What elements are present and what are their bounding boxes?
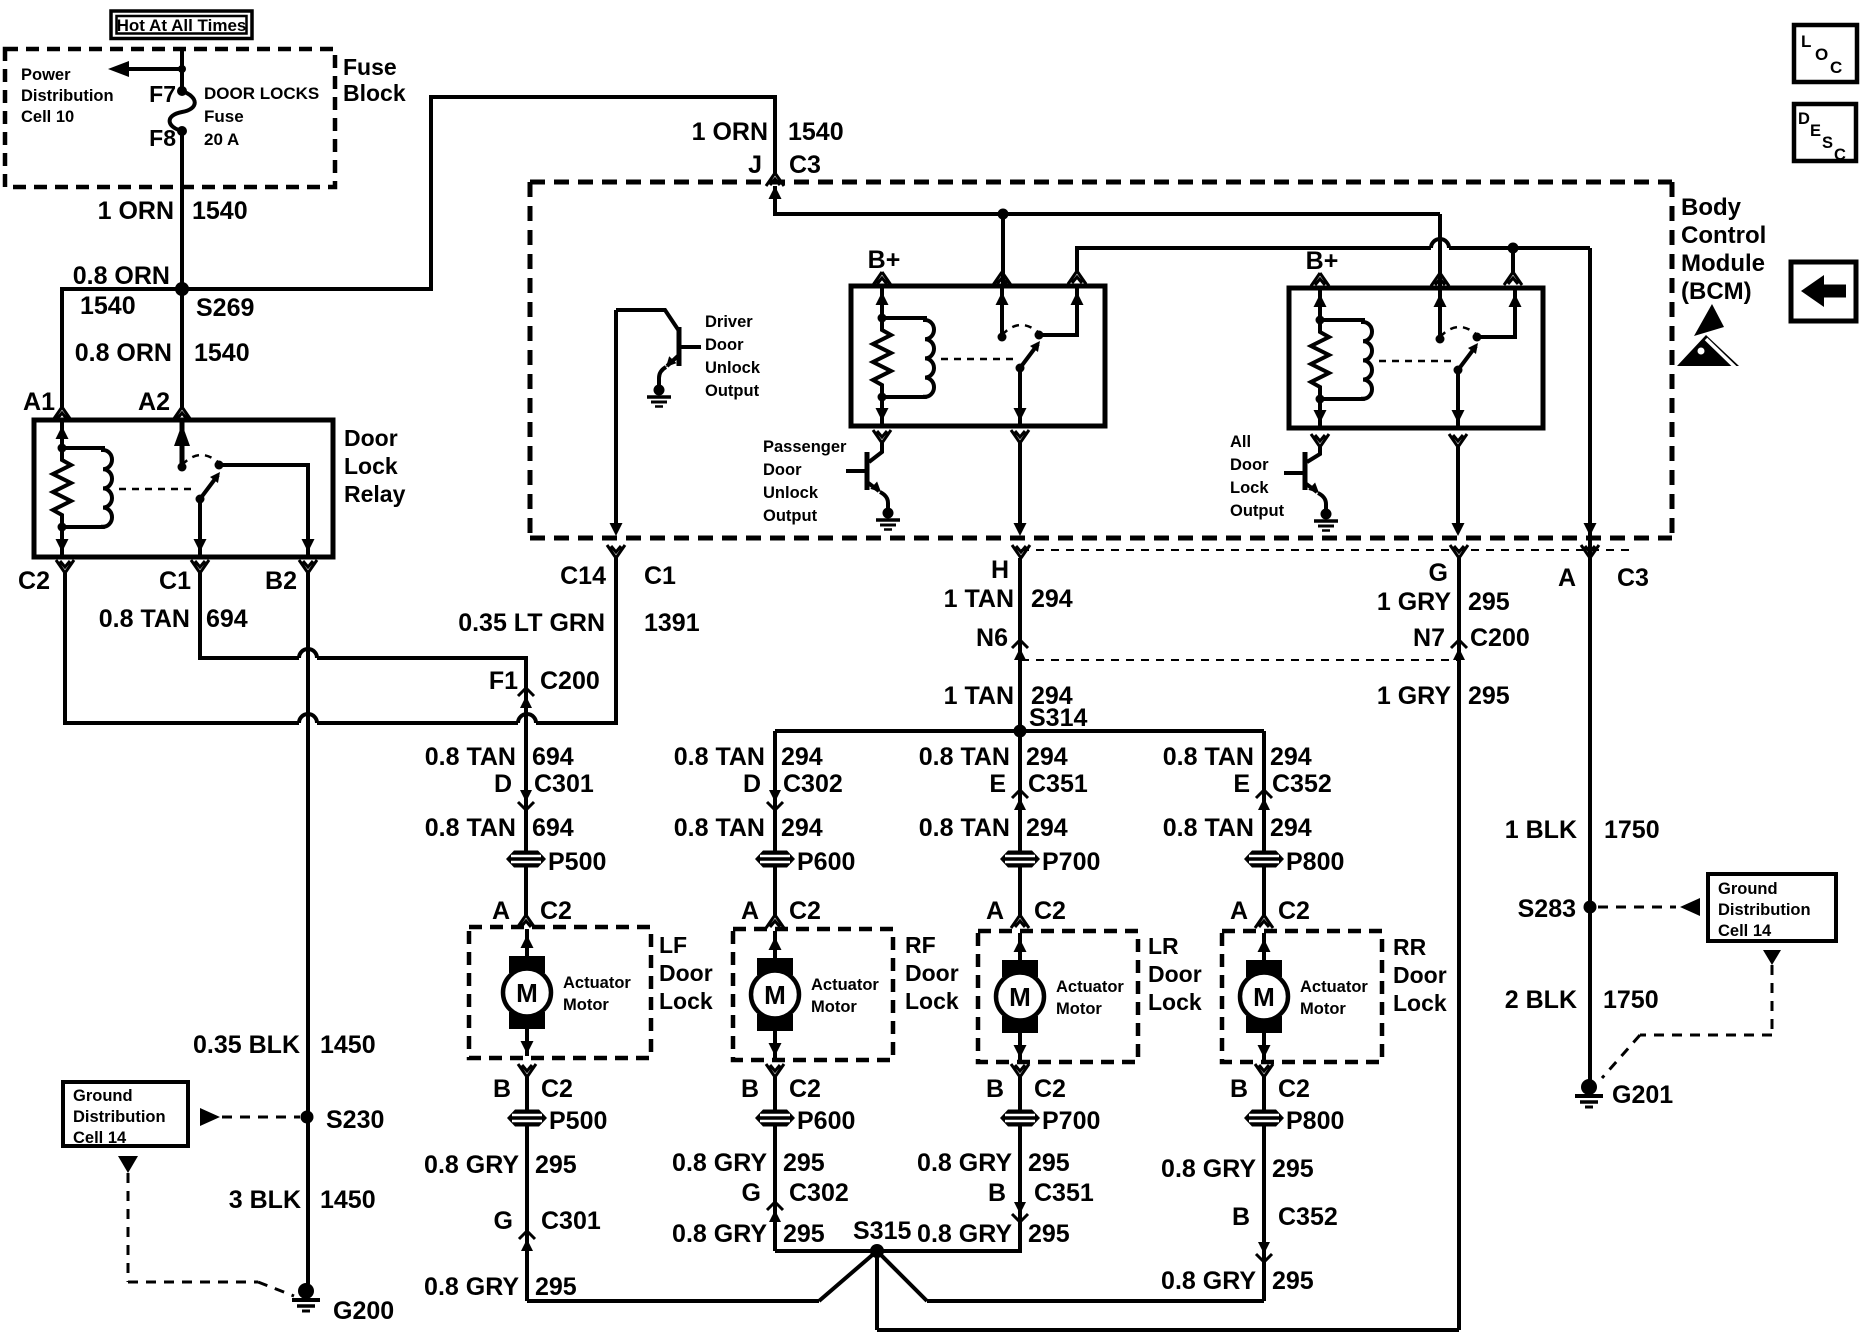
svg-text:C301: C301 <box>534 770 594 798</box>
connector C200 F1 <box>518 688 534 708</box>
connector C200 pass-through dashed lines <box>1021 549 1630 551</box>
pin G <box>1429 545 1468 587</box>
svg-text:1540: 1540 <box>80 292 136 320</box>
RR chain <box>1163 743 1345 928</box>
svg-text:295: 295 <box>535 1151 577 1179</box>
splice P700 <box>1000 1110 1040 1127</box>
svg-text:S269: S269 <box>196 294 254 322</box>
svg-text:G201: G201 <box>1612 1081 1673 1109</box>
svg-text:All: All <box>1230 433 1251 451</box>
svg-text:0.8 TAN: 0.8 TAN <box>425 743 516 771</box>
wire BCM battery feed <box>775 186 1440 214</box>
svg-text:B: B <box>986 1075 1004 1103</box>
pin B C2 <box>1255 1064 1273 1077</box>
node S315 and ground buses <box>527 1217 1459 1330</box>
svg-text:Driver: Driver <box>705 313 753 331</box>
fuse F7/F8 DOOR LOCKS 20A <box>149 81 319 151</box>
LF lower chain <box>424 1064 607 1301</box>
svg-text:1450: 1450 <box>320 1031 376 1059</box>
svg-text:B2: B2 <box>265 567 297 595</box>
svg-text:S314: S314 <box>1029 704 1087 732</box>
svg-text:1540: 1540 <box>788 118 844 146</box>
svg-text:C351: C351 <box>1028 770 1088 798</box>
svg-text:Body: Body <box>1681 194 1742 221</box>
Door Lock Relay label <box>344 425 406 507</box>
node S269 <box>73 262 255 322</box>
svg-text:P500: P500 <box>549 1107 607 1135</box>
svg-text:294: 294 <box>1270 814 1312 842</box>
Ground Distribution Cell 14 box (left) <box>63 1082 300 1296</box>
svg-text:C1: C1 <box>159 567 191 595</box>
svg-text:0.8 TAN: 0.8 TAN <box>674 743 765 771</box>
svg-text:Distribution: Distribution <box>1718 901 1811 919</box>
connector C301 pin D <box>518 790 534 810</box>
wire relay NC bus to ground line <box>1077 248 1431 271</box>
svg-text:B+: B+ <box>1306 247 1339 275</box>
svg-text:0.8 TAN: 0.8 TAN <box>919 814 1010 842</box>
svg-text:Output: Output <box>705 382 760 400</box>
svg-text:A: A <box>1558 564 1576 592</box>
svg-text:L: L <box>1801 32 1811 51</box>
svg-text:N7: N7 <box>1413 624 1445 652</box>
svg-text:A: A <box>986 897 1004 925</box>
svg-text:G200: G200 <box>333 1297 394 1325</box>
all door lock transistor Q3 <box>1230 433 1338 531</box>
svg-text:P700: P700 <box>1042 1107 1100 1135</box>
svg-text:Door: Door <box>705 336 744 354</box>
node S283 <box>1518 895 1597 923</box>
svg-text:295: 295 <box>1468 682 1510 710</box>
svg-text:Ground: Ground <box>1718 880 1778 898</box>
splice P600 <box>755 851 795 868</box>
splice P700 <box>1000 851 1040 868</box>
svg-text:C3: C3 <box>1617 564 1649 592</box>
svg-text:C2: C2 <box>1034 1075 1066 1103</box>
svg-text:C352: C352 <box>1272 770 1332 798</box>
svg-text:Passenger: Passenger <box>763 438 847 456</box>
wire RR riser <box>1262 731 1266 915</box>
svg-text:1 GRY: 1 GRY <box>1377 588 1451 616</box>
pin A1 <box>23 388 71 420</box>
splice P500 <box>507 1110 547 1127</box>
svg-text:Output: Output <box>763 507 818 525</box>
wire S269 left branch to A1 <box>62 289 182 407</box>
LF actuator motor M1 <box>469 927 651 1058</box>
svg-text:694: 694 <box>532 743 574 771</box>
splice P600 <box>755 1110 795 1127</box>
svg-text:B: B <box>988 1179 1006 1207</box>
wire LR riser <box>1018 558 1022 915</box>
svg-text:A: A <box>1230 897 1248 925</box>
pin B C2 <box>1011 1064 1029 1077</box>
Body Control Module label <box>1681 194 1766 305</box>
pin H <box>991 545 1030 584</box>
svg-text:Door: Door <box>1148 961 1202 987</box>
svg-text:D: D <box>494 770 512 798</box>
svg-text:0.8 TAN: 0.8 TAN <box>425 814 516 842</box>
svg-text:0.35 LT GRN: 0.35 LT GRN <box>458 609 605 637</box>
svg-text:D: D <box>1798 110 1810 128</box>
svg-text:0.8 TAN: 0.8 TAN <box>1163 814 1254 842</box>
svg-text:C200: C200 <box>540 667 600 695</box>
svg-text:S: S <box>1822 134 1833 152</box>
svg-text:C2: C2 <box>1278 1075 1310 1103</box>
svg-text:295: 295 <box>783 1149 825 1177</box>
Fuse Block dashed box <box>5 49 335 187</box>
pin J C3 <box>766 173 784 199</box>
pin B C2 <box>518 1064 536 1077</box>
pin B C2 <box>766 1064 784 1077</box>
svg-text:295: 295 <box>1028 1220 1070 1248</box>
svg-text:Lock: Lock <box>1393 990 1447 1016</box>
svg-text:C2: C2 <box>789 1075 821 1103</box>
svg-text:LF: LF <box>659 932 687 958</box>
svg-text:DOOR LOCKS: DOOR LOCKS <box>204 84 319 103</box>
svg-text:C200: C200 <box>1470 624 1530 652</box>
svg-text:294: 294 <box>781 743 823 771</box>
Power Distribution Cell 10 label <box>21 66 114 126</box>
svg-text:E: E <box>989 770 1006 798</box>
wire RF motor to S315 <box>773 1077 777 1251</box>
svg-text:Door: Door <box>1230 456 1269 474</box>
svg-text:A1: A1 <box>23 388 55 416</box>
LR actuator motor M3 <box>978 931 1138 1062</box>
svg-text:0.8 ORN: 0.8 ORN <box>75 339 172 367</box>
svg-text:C302: C302 <box>789 1179 849 1207</box>
svg-text:295: 295 <box>1028 1149 1070 1177</box>
svg-text:Distribution: Distribution <box>73 1108 166 1126</box>
svg-text:1 GRY: 1 GRY <box>1377 682 1451 710</box>
svg-text:P600: P600 <box>797 1107 855 1135</box>
wire hop over B2 <box>299 649 317 658</box>
back arrow icon <box>1791 262 1856 321</box>
svg-text:S230: S230 <box>326 1106 384 1134</box>
relay coil <box>62 448 112 527</box>
svg-text:B: B <box>741 1075 759 1103</box>
svg-text:C301: C301 <box>541 1207 601 1235</box>
svg-text:Lock: Lock <box>1230 479 1269 497</box>
svg-text:294: 294 <box>1026 814 1068 842</box>
wire B2 ground run <box>306 573 310 1284</box>
RF actuator motor M2 <box>733 929 893 1060</box>
svg-text:C351: C351 <box>1034 1179 1094 1207</box>
relay switch A2 common feed <box>180 420 185 467</box>
svg-text:Lock: Lock <box>344 453 398 479</box>
svg-text:Door: Door <box>1393 962 1447 988</box>
wire G to bottom bus <box>1457 558 1461 1330</box>
wire LR motor to S315 <box>1018 1077 1022 1251</box>
svg-text:C: C <box>1834 146 1846 164</box>
wire S269 to fuse block right riser <box>182 97 775 289</box>
svg-text:Power: Power <box>21 66 71 84</box>
svg-text:Fuse: Fuse <box>204 107 244 126</box>
svg-text:C352: C352 <box>1278 1203 1338 1231</box>
wire relay U1 switch to H <box>1011 430 1029 443</box>
svg-text:C14: C14 <box>560 562 606 590</box>
relay armature <box>200 475 218 499</box>
svg-text:C302: C302 <box>783 770 843 798</box>
svg-text:F7: F7 <box>149 81 176 107</box>
svg-text:295: 295 <box>535 1273 577 1301</box>
RR actuator motor M4 <box>1222 931 1382 1062</box>
splice P800 <box>1244 851 1284 868</box>
wire relay U2 switch to G <box>1449 434 1467 447</box>
wire driver output to C14 C1 <box>614 310 618 528</box>
power distribution arrow <box>108 61 186 77</box>
svg-text:Cell 14: Cell 14 <box>73 1129 127 1147</box>
wire 1 ORN 1540 from fuse to S269 <box>180 131 184 289</box>
svg-text:B: B <box>1230 1075 1248 1103</box>
RF chain <box>674 743 856 928</box>
svg-text:Unlock: Unlock <box>705 359 761 377</box>
svg-text:C2: C2 <box>541 1075 573 1103</box>
svg-text:Door: Door <box>905 960 959 986</box>
svg-text:C3: C3 <box>789 151 821 179</box>
svg-text:Door: Door <box>344 425 398 451</box>
wire fuse feed <box>180 49 184 91</box>
svg-text:G: G <box>494 1207 513 1235</box>
svg-text:0.8 GRY: 0.8 GRY <box>1161 1267 1256 1295</box>
svg-text:Output: Output <box>1230 502 1285 520</box>
svg-text:0.8 TAN: 0.8 TAN <box>1163 743 1254 771</box>
svg-text:Fuse: Fuse <box>343 54 397 80</box>
svg-text:1450: 1450 <box>320 1186 376 1214</box>
svg-text:C1: C1 <box>644 562 676 590</box>
svg-text:Module: Module <box>1681 250 1765 277</box>
svg-text:S315: S315 <box>853 1217 911 1245</box>
svg-text:0.8 GRY: 0.8 GRY <box>917 1149 1012 1177</box>
LOC icon <box>1794 25 1857 82</box>
svg-text:C2: C2 <box>540 897 572 925</box>
svg-text:C2: C2 <box>1034 897 1066 925</box>
svg-text:20 A: 20 A <box>204 130 239 149</box>
pin A C3 <box>1558 545 1649 592</box>
svg-text:F1: F1 <box>489 667 518 695</box>
svg-text:294: 294 <box>1031 585 1073 613</box>
Ground Distribution Cell 14 box (right) <box>1598 874 1836 1078</box>
node S230 <box>301 1106 385 1134</box>
LR chain <box>919 585 1101 928</box>
pin A2 <box>138 388 191 420</box>
svg-text:1 TAN: 1 TAN <box>944 585 1014 613</box>
svg-text:C2: C2 <box>789 897 821 925</box>
svg-text:Lock: Lock <box>905 988 959 1014</box>
pin C1 <box>159 560 209 595</box>
svg-text:E: E <box>1233 770 1250 798</box>
svg-text:295: 295 <box>1272 1155 1314 1183</box>
svg-text:Unlock: Unlock <box>763 484 819 502</box>
DESC icon <box>1794 104 1856 164</box>
svg-text:Cell 10: Cell 10 <box>21 108 74 126</box>
svg-text:1540: 1540 <box>192 197 248 225</box>
svg-text:A: A <box>492 897 510 925</box>
svg-text:0.8 GRY: 0.8 GRY <box>672 1149 767 1177</box>
svg-text:0.8 TAN: 0.8 TAN <box>919 743 1010 771</box>
svg-text:295: 295 <box>1468 588 1510 616</box>
LF chain <box>425 667 607 928</box>
svg-text:694: 694 <box>532 814 574 842</box>
svg-text:1 BLK: 1 BLK <box>1505 816 1577 844</box>
svg-text:0.8 TAN: 0.8 TAN <box>674 814 765 842</box>
svg-text:O: O <box>1815 45 1828 64</box>
svg-text:0.8 GRY: 0.8 GRY <box>1161 1155 1256 1183</box>
svg-text:C2: C2 <box>18 567 50 595</box>
svg-text:295: 295 <box>783 1220 825 1248</box>
ESD symbol <box>1677 304 1739 370</box>
svg-text:1750: 1750 <box>1604 816 1660 844</box>
svg-text:H: H <box>991 556 1009 584</box>
BCM dashed border <box>530 182 1672 538</box>
pin B2 <box>265 560 317 595</box>
svg-text:294: 294 <box>781 814 823 842</box>
svg-text:1 TAN: 1 TAN <box>944 682 1014 710</box>
RF lower chain <box>672 1064 855 1251</box>
ground G201 <box>1575 1079 1673 1109</box>
svg-text:1 ORN: 1 ORN <box>98 197 174 225</box>
node S314 bus <box>775 729 1264 733</box>
svg-text:P700: P700 <box>1042 848 1100 876</box>
svg-text:B: B <box>1232 1203 1250 1231</box>
svg-text:B: B <box>493 1075 511 1103</box>
svg-text:Lock: Lock <box>659 988 713 1014</box>
svg-text:0.8 TAN: 0.8 TAN <box>99 605 190 633</box>
svg-text:Relay: Relay <box>344 481 406 507</box>
svg-text:P500: P500 <box>548 848 606 876</box>
svg-text:Lock: Lock <box>1148 989 1202 1015</box>
G N7 labels <box>1377 588 1530 710</box>
driver door unlock transistor Q1 <box>616 310 761 407</box>
svg-text:(BCM): (BCM) <box>1681 278 1752 305</box>
svg-text:C: C <box>1830 58 1842 77</box>
RR lower chain <box>1161 1064 1344 1301</box>
splice P500 <box>506 851 546 868</box>
svg-text:Hot At All Times: Hot At All Times <box>117 16 247 35</box>
svg-text:1540: 1540 <box>194 339 250 367</box>
relay coil resistor A1 side <box>60 420 64 448</box>
svg-text:1391: 1391 <box>644 609 700 637</box>
svg-text:0.35 BLK: 0.35 BLK <box>193 1031 300 1059</box>
svg-text:P800: P800 <box>1286 848 1344 876</box>
svg-text:295: 295 <box>1272 1267 1314 1295</box>
svg-text:Block: Block <box>343 80 406 106</box>
svg-text:N6: N6 <box>976 624 1008 652</box>
svg-text:Ground: Ground <box>73 1087 133 1105</box>
svg-text:0.8 GRY: 0.8 GRY <box>424 1273 519 1301</box>
wire LF motor to ground bus <box>525 1077 529 1301</box>
wire hop over LF riser <box>518 714 536 723</box>
svg-text:B+: B+ <box>868 246 901 274</box>
svg-text:C2: C2 <box>1278 897 1310 925</box>
svg-text:P800: P800 <box>1286 1107 1344 1135</box>
passenger door unlock transistor Q2 <box>763 430 900 530</box>
svg-text:E: E <box>1810 122 1821 140</box>
wire ground run A C3 <box>1588 248 1592 1080</box>
svg-text:G: G <box>742 1179 761 1207</box>
svg-text:A: A <box>741 897 759 925</box>
splice P800 <box>1244 1110 1284 1127</box>
svg-text:RF: RF <box>905 932 936 958</box>
Hot At All Times box <box>111 11 252 39</box>
wire hop over B2 <box>299 714 317 723</box>
svg-text:G: G <box>1429 559 1448 587</box>
svg-text:Distribution: Distribution <box>21 87 114 105</box>
wire RR motor to ground bus <box>1262 1077 1266 1301</box>
svg-text:2 BLK: 2 BLK <box>1505 986 1577 1014</box>
svg-text:Cell 14: Cell 14 <box>1718 922 1772 940</box>
svg-text:1750: 1750 <box>1603 986 1659 1014</box>
LR lower chain <box>917 1064 1100 1251</box>
wire RF riser <box>773 731 777 915</box>
svg-text:S283: S283 <box>1518 895 1576 923</box>
Fuse Block label <box>343 54 406 106</box>
svg-text:3 BLK: 3 BLK <box>229 1186 301 1214</box>
svg-text:RR: RR <box>1393 934 1427 960</box>
svg-text:0.8 GRY: 0.8 GRY <box>672 1220 767 1248</box>
svg-text:Door: Door <box>763 461 802 479</box>
svg-text:D: D <box>743 770 761 798</box>
svg-text:1 ORN: 1 ORN <box>692 118 768 146</box>
svg-text:0.8 GRY: 0.8 GRY <box>917 1220 1012 1248</box>
svg-text:P600: P600 <box>797 848 855 876</box>
svg-text:294: 294 <box>1270 743 1312 771</box>
svg-text:Door: Door <box>659 960 713 986</box>
svg-text:F8: F8 <box>149 125 176 151</box>
svg-text:LR: LR <box>1148 933 1179 959</box>
ground G200 <box>292 1283 394 1325</box>
wire from C2 down and right <box>65 573 299 723</box>
svg-text:294: 294 <box>1026 743 1068 771</box>
svg-text:J: J <box>748 151 762 179</box>
svg-text:694: 694 <box>206 605 248 633</box>
pin C2 <box>18 560 74 595</box>
svg-text:0.8 ORN: 0.8 ORN <box>73 262 170 290</box>
wire S269 down to A2 <box>180 289 184 407</box>
svg-text:Control: Control <box>1681 222 1766 249</box>
svg-text:A2: A2 <box>138 388 170 416</box>
svg-text:0.8 GRY: 0.8 GRY <box>424 1151 519 1179</box>
